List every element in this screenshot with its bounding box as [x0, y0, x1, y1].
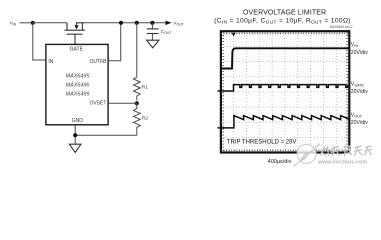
node R1 label: [142, 85, 148, 91]
annotation timebase: [268, 159, 292, 165]
ground symbol COUT: [147, 40, 159, 48]
junction VIN node: [31, 21, 35, 25]
scope minor ticks left edge: [222, 32, 224, 152]
watermark logo circle: [294, 144, 320, 167]
svg-text:R2: R2: [142, 115, 148, 121]
junction ground node: [73, 133, 77, 137]
svg-text:VIN: VIN: [10, 21, 17, 27]
scope graticule frame: [221, 31, 349, 152]
resistor R2: [134, 103, 141, 135]
svg-text:GND: GND: [72, 118, 84, 124]
scope grid vertical dotted lines: [234, 32, 337, 152]
trace VGATE: [218, 85, 348, 91]
svg-text:R1: R1: [142, 85, 148, 91]
junction R1 node: [135, 21, 139, 25]
watermark url text: [317, 159, 367, 165]
svg-text:VOUT: VOUT: [173, 21, 183, 27]
svg-text:www.elecfans.com: www.elecfans.com: [317, 159, 367, 165]
node VOUT arrow: [166, 21, 172, 25]
svg-text:20V/div: 20V/div: [351, 50, 368, 56]
svg-text:OVERVOLTAGE LIMITER: OVERVOLTAGE LIMITER: [243, 9, 326, 16]
scope minor ticks bottom edge: [221, 149, 349, 151]
node VOUT label: [173, 21, 183, 27]
svg-text:MAX6496: MAX6496: [66, 83, 90, 89]
scope subtitle conditions: [214, 18, 351, 26]
ground symbol main: [69, 144, 81, 152]
wire VIN lead: [20, 22, 33, 24]
junction OUTFB node: [119, 21, 123, 25]
scope doc number: [330, 25, 353, 29]
svg-text:GATE: GATE: [70, 47, 84, 53]
scope title: [243, 9, 326, 16]
trace VOUT: [218, 116, 349, 128]
wire MOSFET source to VOUT rail: [82, 22, 165, 24]
wire VIN rail to MOSFET drain: [33, 22, 67, 24]
wire R2 bottom to ground: [75, 134, 137, 136]
scope trigger marker: [232, 33, 236, 37]
svg-text:20V/div: 20V/div: [351, 89, 368, 95]
trace label VOUT: [351, 113, 368, 126]
svg-text:MAX6499: MAX6499: [66, 92, 90, 98]
op-amp U1 MAX649x controller box: [46, 44, 108, 124]
capacitor COUT: [147, 29, 159, 40]
scope grid horizontal dotted lines: [221, 46, 349, 137]
svg-text:IN: IN: [48, 59, 53, 65]
svg-text:OUTFB: OUTFB: [89, 59, 107, 65]
svg-text:COUT: COUT: [161, 29, 172, 35]
scope minor ticks top edge: [221, 33, 349, 35]
wire rail down to R1: [136, 23, 138, 77]
trace label VGATE: [351, 81, 368, 95]
wire OUTFB to rail: [108, 23, 121, 61]
scope minor ticks right edge: [346, 32, 348, 152]
resistor R1: [134, 77, 141, 100]
wire VIN down to IN pin: [33, 23, 46, 60]
trace VIN: [220, 48, 348, 68]
watermark chinese characters: [319, 146, 372, 157]
svg-text:MAX6495: MAX6495: [66, 73, 91, 79]
wire rail down to COUT: [151, 23, 153, 29]
svg-text:400µs/div: 400µs/div: [268, 159, 292, 165]
wire GND pin down: [74, 125, 76, 144]
node COUT label: [161, 29, 172, 35]
junction OVSET node: [135, 101, 139, 105]
annotation trip threshold: [227, 139, 297, 145]
svg-text:20V/div: 20V/div: [351, 120, 368, 126]
wire OVSET: [108, 102, 137, 104]
transistor Q1 n-channel MOSFET: [65, 23, 86, 45]
junction COUT node: [150, 21, 154, 25]
node R2 label: [142, 115, 148, 121]
svg-text:MAX6495 toc12: MAX6495 toc12: [330, 25, 353, 29]
node VIN: [10, 21, 17, 27]
svg-text:TRIP THRESHOLD = 28V: TRIP THRESHOLD = 28V: [227, 139, 297, 145]
svg-text:OVSET: OVSET: [89, 101, 106, 107]
trace label VIN: [351, 42, 368, 56]
